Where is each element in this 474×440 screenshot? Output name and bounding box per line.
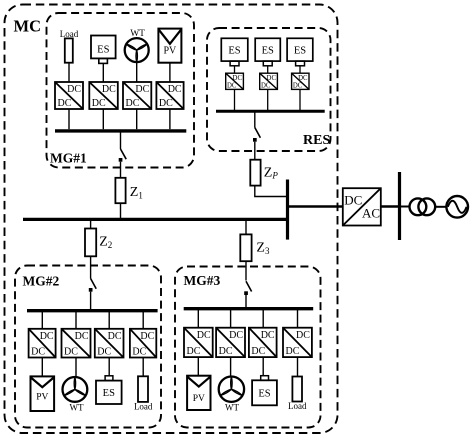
svg-text:DC: DC [135,84,149,95]
wire RES converter3 to RES bus [299,89,301,110]
wire transformer to grid source [435,206,446,208]
svg-text:DC: DC [344,193,362,208]
converter DC/DC (MG#3 load) [283,328,312,357]
wire converter1 to PV [197,357,199,376]
svg-text:ES: ES [228,46,240,57]
svg-text:DC: DC [293,83,303,90]
photovoltaic PV (MG#3) [187,376,210,410]
wire RES converter2 to RES bus [267,89,269,110]
wire Z3 to switch [245,261,247,280]
converter DC/DC (MG#1 WT) [123,82,151,109]
wire RES converter1 to RES bus [234,89,236,110]
label MG#2 [23,274,60,289]
wire PV to converter [169,63,171,82]
converter DC/DC (MG#3 WT) [216,328,245,357]
label Z2 [99,235,112,250]
converter DC/DC (MG#1 load) [55,82,83,109]
energy storage ES2 (RES) [255,38,280,65]
label Z1 [130,185,143,200]
converter DC/DC (RES 1) [226,73,244,89]
svg-text:DC: DC [64,346,78,357]
wire converter3 to MG1 bus [136,109,138,129]
svg-text:WT: WT [70,403,84,413]
label MG#1 [50,151,87,166]
photovoltaic PV (MG#1) [158,29,181,63]
converter DC/DC (RES 2) [260,73,278,89]
label Z3 [256,241,270,256]
boundary MG#1 [47,13,195,168]
load Load (MG#2) [134,376,153,411]
svg-text:Z2: Z2 [99,235,112,250]
svg-text:DC: DC [219,346,233,357]
wire converter4 to load [297,357,299,376]
converter DC/DC (MG#2 WT) [62,329,91,358]
wire converter1 to PV [41,358,43,377]
svg-text:DC: DC [227,83,237,90]
wire Load to converter [68,63,70,82]
switch (MG#1 feeder) [119,149,127,162]
wind turbine WT (MG#2) [63,377,88,413]
switch (MG#2 feeder) [89,279,96,292]
energy storage ES (MG#1) [91,36,116,64]
svg-text:DC: DC [31,346,45,357]
svg-text:MC: MC [14,17,42,36]
wire converter4 to MG1 bus [169,109,171,129]
wire RES bus to switch [254,111,256,127]
converter DC/DC (MG#2 PV) [29,329,56,358]
svg-text:DC: DC [75,331,89,342]
bus bar (DC side) [286,180,289,240]
svg-text:ES: ES [262,46,274,57]
wire MG2 bus to converter1 [41,311,43,329]
svg-text:DC: DC [251,346,265,357]
photovoltaic PV (MG#2) [31,376,55,411]
bus bar (AC side) [398,172,401,240]
svg-text:DC: DC [267,75,277,82]
wire MG3 bus to converter3 [262,309,264,328]
boundary MG#3 [175,267,321,428]
converter DC/DC (MG#1 ES) [89,82,118,109]
svg-text:Z3: Z3 [256,241,270,256]
wire DC/AC converter to AC bus bar [381,205,400,208]
svg-text:DC: DC [261,330,275,341]
svg-text:DC: DC [108,331,122,342]
converter DC/DC (MG#3 PV) [184,328,213,357]
wire main bus to Z2 [90,219,92,228]
switch (MG#3 feeder) [244,281,251,295]
wire MG2 bus to converter4 [142,311,144,329]
label MC [14,17,42,36]
wire Z1 to main bus [120,203,122,219]
label Zp [264,165,279,180]
wire MG3 bus to converter1 [197,309,199,328]
wire MG3 bus to converter4 [297,309,299,328]
label RES [303,133,330,148]
impedance Z1 [115,178,125,203]
svg-text:DC: DC [187,346,201,357]
svg-text:DC: DC [296,330,310,341]
impedance Z3 [240,234,251,261]
label MG#3 [184,273,221,288]
wire MG3 bus to converter2 [230,309,232,328]
wire ES3 to converter [299,66,301,73]
AC source (utility grid) [446,196,468,218]
wire switch to MG2 bus [90,292,92,311]
switch (RES feeder) [253,128,260,142]
svg-text:DC: DC [159,98,173,109]
wire WT to converter [136,62,138,82]
svg-text:DC: DC [140,331,154,342]
wire switch to MG3 bus [245,294,247,309]
impedance Zp [250,160,260,186]
bus main DC bus [23,218,288,221]
svg-text:DC: DC [58,98,72,109]
svg-text:DC: DC [298,75,308,82]
energy storage ES (MG#3) [252,376,277,406]
svg-text:Load: Load [288,401,307,411]
svg-text:DC: DC [97,346,111,357]
converter DC/DC (MG#2 ES) [95,329,124,358]
converter DC/AC (grid interface) [343,188,381,225]
svg-text:Load: Load [60,29,79,39]
bus RES [216,110,325,113]
impedance Z2 [85,229,96,257]
svg-text:Z1: Z1 [130,185,143,200]
svg-text:MG#3: MG#3 [184,273,221,288]
wire converter2 to WT [75,358,77,378]
wire Zp to AC bus bar [255,186,288,197]
energy storage ES1 (RES) [221,38,248,65]
svg-text:ES: ES [258,389,270,400]
svg-text:DC: DC [126,98,140,109]
svg-text:PV: PV [36,393,48,403]
svg-text:DC: DC [102,84,116,95]
wire main bus to Z3 [245,219,247,234]
wire Z2 to switch [90,256,92,278]
svg-text:DC: DC [92,98,106,109]
wire MG2 bus to converter2 [75,311,77,329]
svg-text:MG#2: MG#2 [23,274,60,289]
svg-text:WT: WT [225,403,239,413]
wire ES2 to converter [267,66,269,73]
boundary RES [207,28,331,151]
svg-text:DC: DC [286,346,300,357]
svg-text:RES: RES [303,133,330,148]
svg-text:DC: DC [197,330,211,341]
bus MG#3 [184,307,314,310]
svg-text:DC: DC [233,75,243,82]
svg-text:DC: DC [40,331,54,342]
svg-text:ZP: ZP [264,165,279,180]
svg-text:DC: DC [132,346,146,357]
converter DC/DC (RES 3) [292,73,309,89]
energy storage ES3 (RES) [287,38,313,65]
wire ES1 to converter [234,66,236,73]
wire switch to Zp [254,142,256,160]
wind turbine WT (MG#1) [125,29,149,62]
wire converter2 to MG1 bus [102,109,104,129]
wire AC bus bar to transformer [400,206,410,208]
boundary MG#2 [15,266,161,428]
wire MG2 bus to converter3 [108,311,110,329]
svg-text:DC: DC [229,330,243,341]
load Load (MG#1) [60,29,79,63]
wire converter3 to ES [108,358,110,376]
wire converter3 to ES [262,357,264,376]
wind turbine WT (MG#3) [219,377,244,413]
wire switch to Z1 [120,162,122,178]
boundary MC (microgrid cluster) [5,5,338,434]
transformer T1 [410,198,436,215]
svg-text:AC: AC [362,206,380,221]
load Load (MG#3) [288,377,307,411]
svg-text:PV: PV [164,45,178,56]
converter DC/DC (MG#2 load) [130,329,156,358]
svg-text:ES: ES [103,388,115,399]
svg-text:ES: ES [97,45,109,56]
bus MG#2 [27,309,158,312]
wire MG1 bus to switch [120,131,122,149]
wire converter1 to MG1 bus [68,109,70,129]
converter DC/DC (MG#1 PV) [156,82,183,109]
wire bus bar to DC/AC converter [288,205,343,208]
bus MG#1 [55,129,186,132]
wire converter2 to WT [230,357,232,376]
converter DC/DC (MG#3 ES) [249,328,277,357]
energy storage ES (MG#2) [96,376,122,404]
svg-text:ES: ES [294,46,306,57]
svg-text:DC: DC [67,84,81,95]
svg-text:Load: Load [134,402,153,412]
svg-text:DC: DC [168,84,182,95]
svg-text:PV: PV [193,394,205,404]
svg-text:DC: DC [261,83,271,90]
wire ES to converter [102,63,104,82]
wire converter4 to load [142,358,144,377]
svg-text:MG#1: MG#1 [50,151,87,166]
